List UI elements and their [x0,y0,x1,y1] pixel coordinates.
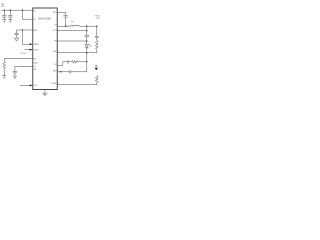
svg-text:OUT: OUT [53,30,58,32]
resistor R1 [3,59,6,76]
wire REF pin 3 [17,29,33,31]
op-amp U1 regulator IC body [33,8,57,90]
node VIN junction dot B [10,10,11,11]
node dot VOUT A [86,26,87,27]
svg-text:CC: CC [34,66,37,68]
ground symbol right [95,66,98,71]
capacitor C6 output [85,26,89,41]
resistor R4 lower right [95,76,98,85]
wire REF pin (right) loop [57,71,69,73]
node VIN junction dot C [22,10,23,11]
svg-text:V+: V+ [34,11,36,13]
wire BST pin [57,11,65,13]
node dot on REF wire [22,29,23,30]
ground under C1 [2,20,6,23]
resistor R3 compensation [72,60,78,63]
svg-text:GND: GND [53,51,58,53]
ground under R1 [2,76,6,79]
svg-text:4.5V: 4.5V [1,6,5,8]
pin labels right column [51,12,57,85]
svg-text:SHDN: SHDN [34,44,40,46]
capacitor C1 input [2,10,6,19]
wire to ON/OFF arrow pin bottom [20,84,30,86]
wire FB pin (right) [57,40,87,42]
wire chain to node [78,61,87,63]
node VIN junction dot A [4,10,5,11]
wire to SHDN arrow pin [22,30,30,44]
wire OUT sense pin [57,30,87,32]
wire VIN branch to pin 2 [22,10,32,19]
wire CC pin (left) [15,65,33,67]
wire GND rail right [57,52,97,54]
ground under C4 [13,76,17,79]
arrow into pin SHDN [30,43,33,45]
svg-text:GND: GND [34,63,39,65]
capacitor C4 [13,66,17,75]
arrow into pin SYNC [30,49,33,51]
capacitor C3 ref bypass [14,30,18,38]
svg-text:REF: REF [34,30,38,32]
label INPUT text [1,4,5,8]
wire CC chain pin stub [57,62,63,66]
svg-text:ON/OFF: ON/OFF [20,53,26,55]
node dot sense tee [86,30,87,31]
wire DL pin to R4 [57,84,97,86]
svg-text:3.3V: 3.3V [96,18,100,20]
svg-text:ON: ON [34,85,37,87]
arrow into bottom pin [30,84,33,86]
resistor R2 [95,40,98,52]
svg-text:+: + [91,33,93,35]
node dot VOUT B [96,26,97,27]
wire column node down [86,53,88,72]
ground triangle under C3 [15,38,19,41]
svg-text:MAX1636: MAX1636 [38,17,51,21]
node dot on REF wire [60,71,61,72]
wire LX switch node rail [57,25,70,27]
label OUTPUT text [95,16,101,21]
capacitor C2 input [8,10,12,19]
node dot chain tee [86,61,87,62]
capacitor C7 output 2 [95,26,99,40]
svg-text:SYNC: SYNC [34,49,40,51]
svg-text:PGND: PGND [51,83,57,85]
svg-text:CC: CC [54,64,57,66]
wire FB pin (left) [4,58,33,60]
node VIN input rail [1,9,33,11]
svg-text:5817: 5817 [89,46,92,48]
ground under IC [42,90,47,96]
wire VOUT rail [79,25,97,27]
capacitor C5 bootstrap [64,12,68,26]
svg-text:10µH: 10µH [71,21,75,23]
wire to SYNC arrow pin [24,49,30,51]
capacitor C9 [70,70,87,73]
capacitor C8 compensation [63,60,72,63]
inductor L1 [70,25,79,26]
svg-text:SS: SS [34,69,37,71]
node dot gnd rail [86,52,87,53]
svg-text:FB: FB [34,58,37,60]
svg-text:V+: V+ [34,19,36,21]
ground under C2 [8,20,12,23]
diode D1 [85,41,88,53]
node dot FB tee [86,40,87,41]
node dot bootstrap [65,26,66,27]
pin labels left column [34,11,40,88]
svg-text:+: + [89,34,91,36]
